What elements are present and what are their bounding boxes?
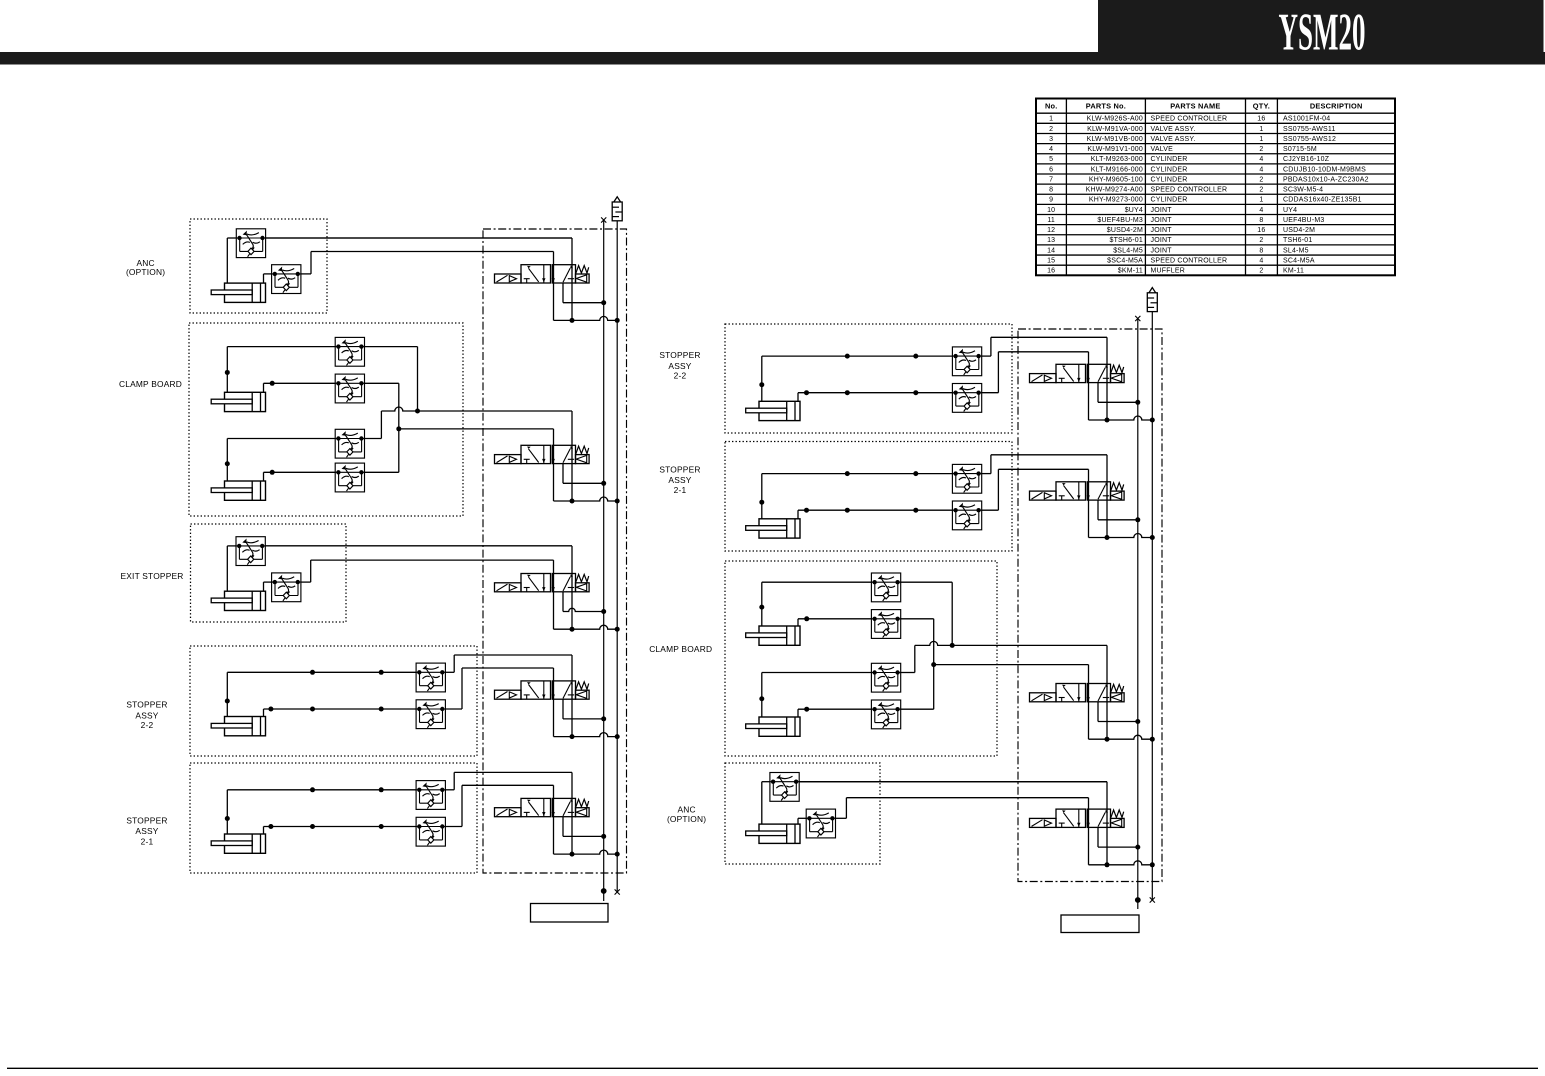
svg-text:6: 6 — [1049, 166, 1053, 173]
svg-text:4: 4 — [1049, 146, 1053, 153]
svg-text:9: 9 — [1049, 197, 1053, 204]
svg-text:SS0755-AWS11: SS0755-AWS11 — [1283, 126, 1336, 133]
svg-text:CYLINDER: CYLINDER — [1151, 176, 1188, 183]
svg-text:5: 5 — [1049, 156, 1053, 163]
svg-text:14: 14 — [1047, 247, 1055, 254]
svg-text:ASSY: ASSY — [135, 826, 158, 836]
svg-text:KHY-M9273-000: KHY-M9273-000 — [1089, 197, 1143, 204]
svg-text:UY4: UY4 — [1283, 207, 1297, 214]
svg-text:EXIT STOPPER: EXIT STOPPER — [120, 571, 183, 581]
svg-text:KLW-M91V1-000: KLW-M91V1-000 — [1087, 146, 1143, 153]
svg-text:2-2: 2-2 — [674, 370, 687, 380]
svg-text:10: 10 — [1047, 207, 1055, 214]
svg-text:8: 8 — [1049, 187, 1053, 194]
svg-text:JOINT: JOINT — [1151, 227, 1173, 234]
svg-text:7: 7 — [1049, 176, 1053, 183]
svg-text:PBDAS10x10-A-ZC230A2: PBDAS10x10-A-ZC230A2 — [1283, 176, 1369, 183]
svg-text:JOINT: JOINT — [1151, 217, 1173, 224]
svg-text:STOPPER: STOPPER — [126, 699, 167, 709]
svg-text:SPEED CONTROLLER: SPEED CONTROLLER — [1151, 258, 1228, 265]
svg-text:2: 2 — [1049, 126, 1053, 133]
svg-text:CJ2YB16-10Z: CJ2YB16-10Z — [1283, 156, 1330, 163]
svg-text:2-2: 2-2 — [141, 720, 154, 730]
svg-text:4: 4 — [1259, 258, 1263, 265]
svg-text:JOINT: JOINT — [1151, 237, 1173, 244]
svg-text:$USD4-2M: $USD4-2M — [1107, 227, 1143, 234]
svg-text:ASSY: ASSY — [135, 710, 158, 720]
svg-text:UEF4BU-M3: UEF4BU-M3 — [1283, 217, 1324, 224]
svg-text:4: 4 — [1259, 166, 1263, 173]
svg-text:STOPPER: STOPPER — [126, 815, 167, 825]
svg-text:$KM-11: $KM-11 — [1118, 268, 1143, 275]
svg-text:11: 11 — [1047, 217, 1055, 224]
svg-text:$SC4-M5A: $SC4-M5A — [1107, 258, 1143, 265]
svg-text:JOINT: JOINT — [1151, 247, 1173, 254]
svg-text:$SL4-M5: $SL4-M5 — [1113, 247, 1143, 254]
svg-text:TSH6-01: TSH6-01 — [1283, 237, 1312, 244]
svg-text:(OPTION): (OPTION) — [126, 267, 165, 277]
svg-text:8: 8 — [1259, 247, 1263, 254]
svg-text:QTY.: QTY. — [1253, 101, 1270, 110]
svg-text:2: 2 — [1259, 187, 1263, 194]
svg-text:SS0755-AWS12: SS0755-AWS12 — [1283, 136, 1336, 143]
svg-text:VALVE ASSY.: VALVE ASSY. — [1151, 126, 1196, 133]
svg-text:CYLINDER: CYLINDER — [1151, 197, 1188, 204]
svg-text:SL4-M5: SL4-M5 — [1283, 247, 1309, 254]
svg-text:$UEF4BU-M3: $UEF4BU-M3 — [1097, 217, 1143, 224]
svg-text:16: 16 — [1047, 268, 1055, 275]
svg-text:1: 1 — [1259, 197, 1263, 204]
svg-text:AS1001FM-04: AS1001FM-04 — [1283, 116, 1330, 123]
svg-text:8: 8 — [1259, 217, 1263, 224]
svg-text:YSM20: YSM20 — [1279, 4, 1366, 62]
svg-text:16: 16 — [1257, 227, 1265, 234]
svg-text:CYLINDER: CYLINDER — [1151, 156, 1188, 163]
svg-text:STOPPER: STOPPER — [659, 465, 700, 475]
svg-text:SPEED CONTROLLER: SPEED CONTROLLER — [1151, 116, 1228, 123]
svg-text:16: 16 — [1257, 116, 1265, 123]
svg-text:CLAMP BOARD: CLAMP BOARD — [119, 379, 182, 389]
svg-text:VALVE ASSY.: VALVE ASSY. — [1151, 136, 1196, 143]
svg-text:KLT-M9166-000: KLT-M9166-000 — [1091, 166, 1143, 173]
svg-text:SC4-M5A: SC4-M5A — [1283, 258, 1315, 265]
svg-text:KLT-M9263-000: KLT-M9263-000 — [1091, 156, 1143, 163]
svg-text:USD4-2M: USD4-2M — [1283, 227, 1315, 234]
svg-text:S0715-5M: S0715-5M — [1283, 146, 1317, 153]
svg-text:1: 1 — [1049, 116, 1053, 123]
svg-text:DESCRIPTION: DESCRIPTION — [1310, 101, 1363, 110]
svg-text:1: 1 — [1259, 136, 1263, 143]
svg-text:KLW-M91VA-000: KLW-M91VA-000 — [1087, 126, 1143, 133]
svg-text:2: 2 — [1259, 176, 1263, 183]
svg-text:CDDAS16x40-ZE135B1: CDDAS16x40-ZE135B1 — [1283, 197, 1362, 204]
svg-text:SPEED CONTROLLER: SPEED CONTROLLER — [1151, 187, 1228, 194]
svg-text:VALVE: VALVE — [1151, 146, 1174, 153]
svg-text:2-1: 2-1 — [141, 836, 154, 846]
svg-text:MUFFLER: MUFFLER — [1151, 268, 1185, 275]
svg-text:4: 4 — [1259, 156, 1263, 163]
svg-text:2: 2 — [1259, 237, 1263, 244]
svg-text:STOPPER: STOPPER — [659, 350, 700, 360]
svg-text:SC3W-M5-4: SC3W-M5-4 — [1283, 187, 1323, 194]
svg-text:15: 15 — [1047, 258, 1055, 265]
svg-text:2: 2 — [1259, 146, 1263, 153]
svg-text:ANC: ANC — [677, 804, 695, 814]
svg-text:JOINT: JOINT — [1151, 207, 1173, 214]
svg-text:CYLINDER: CYLINDER — [1151, 166, 1188, 173]
svg-text:$UY4: $UY4 — [1125, 207, 1143, 214]
svg-text:KLW-M926S-A00: KLW-M926S-A00 — [1087, 116, 1143, 123]
svg-text:2: 2 — [1259, 268, 1263, 275]
svg-text:ASSY: ASSY — [668, 475, 691, 485]
svg-text:KLW-M91VB-000: KLW-M91VB-000 — [1087, 136, 1143, 143]
svg-text:KHW-M9274-A00: KHW-M9274-A00 — [1086, 187, 1143, 194]
svg-text:(OPTION): (OPTION) — [667, 814, 706, 824]
svg-text:1: 1 — [1259, 126, 1263, 133]
svg-text:No.: No. — [1045, 101, 1058, 110]
svg-text:PARTS No.: PARTS No. — [1086, 101, 1126, 110]
svg-text:2-1: 2-1 — [674, 485, 687, 495]
svg-text:$TSH6-01: $TSH6-01 — [1109, 237, 1143, 244]
svg-text:12: 12 — [1047, 227, 1055, 234]
svg-text:CLAMP BOARD: CLAMP BOARD — [649, 644, 712, 654]
svg-text:13: 13 — [1047, 237, 1055, 244]
svg-text:KM-11: KM-11 — [1283, 268, 1304, 275]
svg-text:KHY-M9605-100: KHY-M9605-100 — [1089, 176, 1143, 183]
svg-text:CDUJB10-10DM-M9BMS: CDUJB10-10DM-M9BMS — [1283, 166, 1366, 173]
svg-text:3: 3 — [1049, 136, 1053, 143]
svg-text:PARTS NAME: PARTS NAME — [1170, 101, 1220, 110]
svg-text:4: 4 — [1259, 207, 1263, 214]
